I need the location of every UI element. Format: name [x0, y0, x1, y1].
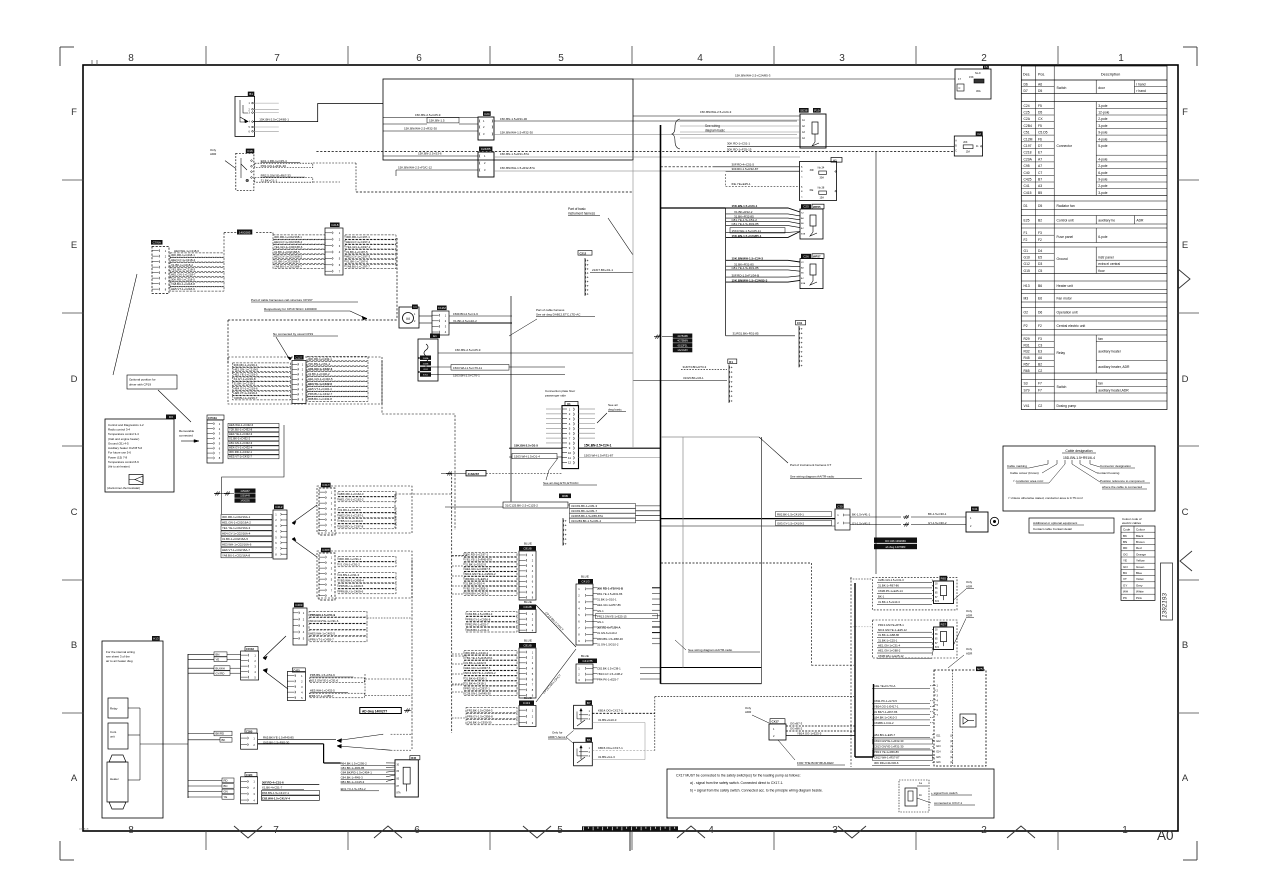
svg-text:C415: C415 — [1024, 191, 1032, 195]
svg-text:31.RK-1+C167-5: 31.RK-1+C167-5 — [339, 508, 361, 512]
svg-text:C41: C41 — [1024, 184, 1030, 188]
svg-text:BLUE: BLUE — [581, 575, 589, 579]
svg-text:YE: YE — [216, 658, 220, 662]
svg-text:YB5.GY-1+C410-6: YB5.GY-1+C410-6 — [339, 519, 363, 523]
svg-text:F2: F2 — [1024, 238, 1028, 242]
svg-text:A81.GN-1+C432-3: A81.GN-1+C432-3 — [308, 367, 333, 371]
svg-text:Part of cable harness: Part of cable harness — [536, 308, 565, 312]
svg-text:C25: C25 — [803, 205, 809, 209]
svg-text:B5: B5 — [1038, 191, 1042, 195]
svg-text:30K.RD-1+C219-1: 30K.RD-1+C219-1 — [234, 363, 258, 367]
svg-text:15K.BN-2.5+C25-9: 15K.BN-2.5+C25-9 — [455, 348, 481, 352]
svg-text:F5: F5 — [984, 65, 988, 69]
svg-text:HE1.GN-1+C162-2: HE1.GN-1+C162-2 — [339, 498, 364, 502]
svg-text:D5: D5 — [1038, 111, 1042, 115]
svg-text:6G12F2L: 6G12F2L — [678, 344, 689, 347]
svg-text:Additional or optional equipme: Additional or optional equipment — [1033, 521, 1077, 525]
svg-text:31.BK-1+C219-2: 31.BK-1+C219-2 — [234, 382, 256, 386]
svg-text:C7/16A: C7/16A — [208, 416, 217, 420]
svg-text:YA8.BU-1+C02/168-7: YA8.BU-1+C02/168-7 — [274, 265, 302, 269]
svg-text:C417/B: C417/B — [582, 659, 592, 663]
svg-text:6-pole: 6-pole — [1098, 235, 1107, 239]
svg-text:Switch: Switch — [1057, 385, 1067, 389]
svg-text:30K.RD-1+C218-5: 30K.RD-1+C218-5 — [171, 277, 195, 281]
svg-text:Optional position for: Optional position for — [129, 378, 156, 382]
svg-text:Switch: Switch — [1057, 86, 1067, 90]
svg-text:C3: C3 — [1038, 343, 1042, 347]
svg-text:31/C81.BK-1+C81-3: 31/C81.BK-1+C81-3 — [571, 504, 598, 508]
svg-text:4-pole: 4-pole — [1098, 137, 1107, 141]
svg-text:3: 3 — [839, 53, 845, 64]
svg-text:Cable designation: Cable designation — [1065, 449, 1092, 453]
svg-text:R45: R45 — [1024, 356, 1030, 360]
svg-text:B7A: B7A — [801, 232, 806, 235]
svg-text:ADR: ADR — [745, 710, 752, 714]
svg-text:X1.BK-4+C51-7: X1.BK-4+C51-7 — [262, 786, 283, 790]
svg-text:3: 3 — [832, 825, 838, 836]
svg-text:C28.GN-1.5+R45-30: C28.GN-1.5+R45-30 — [465, 692, 491, 696]
svg-text:PR6.GY-1.5+C956-8: PR6.GY-1.5+C956-8 — [467, 715, 493, 719]
svg-text:A1: A1 — [833, 158, 837, 162]
svg-text:R57: R57 — [941, 622, 947, 626]
svg-text:HE5.VT-1+C432-7: HE5.VT-1+C432-7 — [229, 455, 252, 459]
svg-text:E3: E3 — [1038, 350, 1042, 354]
svg-text:Position reference to componen: Position reference to component — [1100, 479, 1145, 483]
svg-text:B1: B1 — [249, 92, 253, 96]
svg-text:X4.GY-1+C219-8: X4.GY-1+C219-8 — [234, 377, 256, 381]
svg-text:YA8.BU-1+C197-7: YA8.BU-1+C197-7 — [346, 265, 370, 269]
svg-text:PR1.GN-1+R31-30: PR1.GN-1+R31-30 — [261, 164, 287, 168]
svg-text:AD dwg 1400277: AD dwg 1400277 — [362, 709, 387, 713]
svg-text:PR3.YE-1+C2937-1: PR3.YE-1+C2937-1 — [465, 687, 490, 691]
svg-text:1503A: 1503A — [423, 357, 429, 360]
svg-text:G83.GY-1.5+C41/9-2: G83.GY-1.5+C41/9-2 — [777, 521, 805, 525]
svg-text:OG: OG — [1123, 552, 1128, 556]
svg-text:B7A: B7A — [801, 282, 806, 285]
svg-text:M3: M3 — [1024, 296, 1029, 300]
svg-text:31.BK-2+G10-4: 31.BK-2+G10-4 — [465, 582, 485, 586]
svg-text:PR2.5.GN/YE+R67-33: PR2.5.GN/YE+R67-33 — [261, 173, 291, 177]
svg-text:C12M: C12M — [1024, 137, 1033, 141]
svg-text:Connector: Connector — [1057, 144, 1073, 148]
svg-text:D6: D6 — [1038, 310, 1042, 314]
svg-text:21/D7.BK+D1-1: 21/D7.BK+D1-1 — [592, 268, 613, 272]
svg-text:4G75B6N: 4G75B6N — [677, 340, 688, 343]
svg-text:15K.BN-1.5+R31-87A: 15K.BN-1.5+R31-87A — [500, 152, 529, 156]
svg-text:1400285: 1400285 — [239, 230, 251, 234]
svg-text:For future use 5-6: For future use 5-6 — [108, 451, 131, 455]
svg-text:PR6.VT-1+C455-7: PR6.VT-1+C455-7 — [310, 694, 334, 698]
svg-text:(1): (1) — [950, 736, 953, 738]
svg-text:HE1.GN-1+C02/16A-2: HE1.GN-1+C02/16A-2 — [222, 521, 251, 525]
svg-text:GN: GN — [224, 790, 228, 794]
svg-text:E5: E5 — [1038, 256, 1042, 260]
svg-text:F3: F3 — [1038, 337, 1042, 341]
svg-text:2-pole: 2-pole — [1098, 117, 1107, 121]
svg-text:P2: P2 — [1024, 324, 1028, 328]
svg-text:YB1.YE-1.5+R45-87A: YB1.YE-1.5+R45-87A — [465, 656, 492, 660]
svg-text:H13: H13 — [153, 637, 159, 641]
svg-text:Relay: Relay — [1057, 351, 1066, 355]
svg-text:Colour: Colour — [1136, 528, 1145, 532]
svg-text:A81.GN-1+C432-3: A81.GN-1+C432-3 — [229, 441, 253, 445]
svg-text:15A: 15A — [820, 197, 825, 200]
svg-text:PK: PK — [1123, 596, 1127, 600]
svg-text:HE1.GN-1+C432-5: HE1.GN-1+C432-5 — [308, 377, 333, 381]
svg-text:P19: P19 — [814, 109, 820, 113]
svg-text:Only: Only — [966, 609, 973, 613]
svg-text:C66.BK-1+C930-30: C66.BK-1+C930-30 — [467, 721, 492, 725]
svg-text:FOR THE BODYBUILDER: FOR THE BODYBUILDER — [797, 761, 834, 765]
svg-text:2-pole: 2-pole — [1098, 164, 1107, 168]
svg-text:R82.BK-1.5+C41/9-1: R82.BK-1.5+C41/9-1 — [777, 513, 804, 517]
svg-text:dwg basic: dwg basic — [608, 408, 622, 412]
svg-text:3-pole: 3-pole — [1098, 191, 1107, 195]
svg-text:31.BK-1+C197-5: 31.BK-1+C197-5 — [346, 250, 368, 254]
svg-text:F3: F3 — [1038, 231, 1042, 235]
svg-text:PR6.BU-1+C409-6: PR6.BU-1+C409-6 — [339, 590, 364, 594]
svg-text:BN: BN — [1123, 540, 1127, 544]
svg-text:YE1.BN-1+C218-3: YE1.BN-1+C218-3 — [171, 268, 195, 272]
svg-text:Operation unit: Operation unit — [1057, 310, 1078, 314]
svg-text:WH: WH — [1123, 590, 1128, 594]
svg-text:Green: Green — [1136, 565, 1145, 569]
svg-text:Only for: Only for — [552, 731, 563, 735]
svg-text:electric cables: electric cables — [1122, 521, 1142, 525]
svg-text:BN: BN — [216, 653, 220, 657]
svg-text:YA8.BU-1+C219-7: YA8.BU-1+C219-7 — [234, 396, 258, 400]
svg-text:B6: B6 — [587, 738, 591, 742]
svg-text:floor: floor — [1098, 269, 1105, 273]
svg-text:HE1.GN-1+C2937-5: HE1.GN-1+C2937-5 — [465, 666, 491, 670]
svg-text:C410: C410 — [322, 483, 330, 487]
svg-text:G12: G12 — [1024, 262, 1030, 266]
svg-text:passenger side: passenger side — [545, 394, 566, 398]
svg-text:F: F — [71, 107, 77, 118]
svg-text:YB14.OG-1-E417-1: YB14.OG-1-E417-1 — [874, 705, 899, 709]
svg-text:WP25: WP25 — [813, 205, 821, 209]
svg-text:B2: B2 — [1038, 218, 1042, 222]
svg-text:15K.BN-2.5+C24-1: 15K.BN-2.5+C24-1 — [584, 444, 612, 448]
svg-text:6: 6 — [416, 53, 422, 64]
svg-text:6013.GN/YE-1+C2931-2: 6013.GN/YE-1+C2931-2 — [465, 671, 496, 675]
svg-text:YA8.BU-1+C02/16A-8: YA8.BU-1+C02/16A-8 — [222, 554, 251, 558]
svg-text:¹⁾ conductor area mm²: ¹⁾ conductor area mm² — [1013, 479, 1043, 483]
svg-text:R6B: R6B — [562, 494, 568, 498]
svg-text:DO 346 1392969: DO 346 1392969 — [885, 539, 906, 543]
svg-text:30F.RD-1.5+E25-1: 30F.RD-1.5+E25-1 — [465, 577, 489, 581]
svg-text:CX: CX — [1038, 117, 1043, 121]
svg-text:V41: V41 — [972, 507, 978, 511]
svg-text:R88.BU-1+C432-8: R88.BU-1+C432-8 — [308, 397, 332, 401]
svg-text:FR2.BK-1.5+C954-3: FR2.BK-1.5+C954-3 — [467, 709, 493, 713]
svg-text:C84.BK-1+R45-85: C84.BK-1+R45-85 — [341, 766, 365, 770]
svg-text:Part of instrument harness CT: Part of instrument harness CT — [790, 463, 831, 467]
svg-text:C95: C95 — [1024, 164, 1030, 168]
svg-text:Ground: Ground — [1057, 257, 1068, 261]
svg-text:G1: G1 — [1024, 249, 1029, 253]
svg-text:connected: connected — [179, 434, 193, 438]
svg-text:BU: BU — [1123, 571, 1127, 575]
svg-text:5-pole: 5-pole — [1098, 144, 1107, 148]
svg-text:Control unit: Control unit — [1057, 218, 1074, 222]
svg-text:E14: E14 — [937, 752, 942, 754]
svg-text:OG+B7-3: OG+B7-3 — [790, 722, 803, 726]
svg-text:No.38: No.38 — [818, 187, 825, 190]
svg-text:C413: C413 — [523, 701, 531, 705]
svg-text:E6: E6 — [1038, 296, 1042, 300]
svg-text:OG+B6-2: OG+B6-2 — [790, 727, 803, 731]
svg-text:S3: S3 — [1024, 382, 1028, 386]
svg-text:31.BK-1+C02/16A-5: 31.BK-1+C02/16A-5 — [222, 537, 248, 541]
svg-text:Removable: Removable — [179, 429, 195, 433]
svg-text:C41/B: C41/B — [523, 605, 531, 609]
svg-text:HE4.GY-1+C219-6: HE4.GY-1+C219-6 — [234, 386, 258, 390]
svg-text:31/C125.BK-2.5+C125-2: 31/C125.BK-2.5+C125-2 — [505, 504, 538, 508]
svg-text:6/E: 6/E — [810, 189, 814, 192]
svg-text:C813.GN/YE-1+R32-30: C813.GN/YE-1+R32-30 — [874, 739, 904, 743]
svg-text:15D-BN-1.5+R91/6-4: 15D-BN-1.5+R91/6-4 — [1063, 456, 1095, 460]
svg-text:See wiring diagram AA/TR-radio: See wiring diagram AA/TR-radio — [790, 475, 834, 479]
svg-text:Connector designation: Connector designation — [1100, 464, 1131, 468]
svg-text:YB14.OG-1+E25-5: YB14.OG-1+E25-5 — [797, 732, 822, 736]
svg-text:Orange: Orange — [1136, 552, 1146, 556]
svg-text:See air dwg DAB12,ETC,LTD-AC: See air dwg DAB12,ETC,LTD-AC — [536, 313, 581, 317]
svg-text:G62.RD-1+C197-8: G62.RD-1+C197-8 — [339, 525, 364, 529]
svg-text:GN-1: GN-1 — [597, 609, 604, 613]
svg-text:C7/6A: C7/6A — [153, 241, 161, 245]
svg-text:D1: D1 — [1024, 204, 1028, 208]
svg-text:Violet: Violet — [1136, 577, 1144, 581]
svg-text:See air dwg ETC,ETC/AC: See air dwg ETC,ETC/AC — [543, 481, 579, 485]
svg-text:C425: C425 — [1024, 178, 1032, 182]
svg-text:F2: F2 — [977, 132, 981, 136]
svg-text:6-pole: 6-pole — [1098, 171, 1107, 175]
svg-text:R32: R32 — [1024, 350, 1030, 354]
svg-text:B: B — [1182, 640, 1188, 651]
svg-text:C2: C2 — [1038, 369, 1042, 373]
svg-text:Only: Only — [966, 647, 973, 651]
svg-text:30F.RD-1.5+F1/34-B: 30F.RD-1.5+F1/34-B — [732, 273, 760, 277]
svg-text:R29: R29 — [1024, 337, 1030, 341]
svg-text:F6: F6 — [1038, 137, 1042, 141]
svg-text:For the internal wiring: For the internal wiring — [106, 650, 135, 654]
svg-text:31.BK-1+G10-1: 31.BK-1+G10-1 — [597, 598, 617, 602]
svg-text:PR6.BU-1+C432-7: PR6.BU-1+C432-7 — [308, 392, 333, 396]
svg-text:C5: C5 — [1038, 269, 1042, 273]
svg-text:M: M — [406, 316, 409, 321]
svg-text:1: 1 — [1118, 53, 1124, 64]
svg-text:15K.BN/WH-2.5+C24-3: 15K.BN/WH-2.5+C24-3 — [700, 110, 732, 114]
svg-text:31.BK-6+E25/E-1: 31.BK-6+E25/E-1 — [465, 676, 487, 680]
svg-text:15K.BN/WH-2.5+F3/C-12: 15K.BN/WH-2.5+F3/C-12 — [398, 166, 432, 170]
svg-text:PR6.VT-1+C455-7: PR6.VT-1+C455-7 — [310, 638, 334, 642]
svg-text:Respectively for CP19 SDLC 140: Respectively for CP19 SDLC 1400200 — [264, 307, 317, 311]
svg-text:BK-1: BK-1 — [878, 595, 885, 599]
svg-text:C: C — [71, 507, 78, 518]
svg-text:HE2.GY-1+C218-4: HE2.GY-1+C218-4 — [171, 258, 195, 262]
svg-text:BLUE: BLUE — [524, 600, 532, 604]
svg-text:D6: D6 — [1024, 83, 1028, 87]
svg-text:LB4.BN-1+E25-7: LB4.BN-1+E25-7 — [874, 733, 896, 737]
svg-text:C81B.WH-1+E25-12: C81B.WH-1+E25-12 — [878, 654, 904, 658]
svg-text:R8N.BN-1.5+R68-30: R8N.BN-1.5+R68-30 — [597, 637, 623, 641]
svg-text:G15: G15 — [1024, 269, 1030, 273]
svg-text:xx11dk.dk: xx11dk.dk — [79, 829, 90, 831]
svg-text:WP27: WP27 — [813, 255, 821, 259]
svg-text:C212: C212 — [580, 251, 587, 255]
svg-text:5: 5 — [558, 53, 564, 64]
svg-text:6013.GN/YE-1+C91-6: 6013.GN/YE-1+C91-6 — [310, 679, 339, 683]
svg-text:GY: GY — [1123, 583, 1127, 587]
svg-text:R66.BN-1.5+C41/Y-1: R66.BN-1.5+C41/Y-1 — [262, 791, 290, 795]
svg-text:E12: E12 — [937, 741, 942, 743]
svg-text:C29A: C29A — [1024, 157, 1033, 161]
svg-text:1A21G3X: 1A21G3X — [677, 349, 688, 352]
svg-text:15A: 15A — [966, 151, 971, 154]
svg-text:fan: fan — [1098, 382, 1103, 386]
svg-text:30F.RD-4+C51-5: 30F.RD-4+C51-5 — [732, 163, 755, 167]
svg-text:1: 1 — [1122, 825, 1128, 836]
svg-text:BLUE: BLUE — [524, 639, 532, 643]
svg-text:See air: See air — [608, 403, 618, 407]
svg-text:F16: F16 — [247, 149, 253, 153]
svg-text:30K.RD-1+C91-1: 30K.RD-1+C91-1 — [339, 557, 362, 561]
svg-text:connected to CX17-1: connected to CX17-1 — [934, 801, 963, 805]
svg-text:HE5.VT-1+C218-9: HE5.VT-1+C218-9 — [171, 287, 195, 291]
svg-text:30F.RD-4+C51-6: 30F.RD-4+C51-6 — [262, 780, 284, 784]
svg-text:CX17: CX17 — [772, 720, 780, 724]
svg-text:C197: C197 — [1024, 144, 1032, 148]
svg-text:30K RD+C41/230-6: 30K RD+C41/230-6 — [874, 761, 899, 765]
svg-text:DX: DX — [169, 415, 173, 419]
svg-text:F5: F5 — [1038, 104, 1042, 108]
svg-text:E15: E15 — [937, 757, 942, 759]
svg-text:HE5.VT-1+C432-4: HE5.VT-1+C432-4 — [308, 387, 332, 391]
svg-text:A1E.YE+F1/73-A: A1E.YE+F1/73-A — [874, 684, 896, 688]
svg-text:S79: S79 — [1024, 388, 1030, 392]
svg-text:See wiring diagram AA/TR-radio: See wiring diagram AA/TR-radio — [688, 648, 732, 652]
svg-text:G84.BK/RD-1.5+C454-1: G84.BK/RD-1.5+C454-1 — [341, 771, 373, 775]
svg-text:Part of cable harnesses cab st: Part of cable harnesses cab structure CP… — [251, 298, 313, 302]
svg-text:9-pole: 9-pole — [1098, 178, 1107, 182]
svg-text:C82.BK-1.5+C38-1: C82.BK-1.5+C38-1 — [597, 666, 621, 670]
svg-text:R84.BK-1+C415-3: R84.BK-1+C415-3 — [341, 780, 365, 784]
svg-text:BLUE: BLUE — [524, 542, 532, 546]
svg-text:Relay: Relay — [110, 707, 118, 711]
svg-text:D7: D7 — [1024, 89, 1028, 93]
svg-text:31/C81.BK-4+C81-7: 31/C81.BK-4+C81-7 — [571, 509, 598, 513]
svg-text:GY-1.5+V41-2: GY-1.5+V41-2 — [852, 522, 871, 526]
svg-text:30F.RD-1.5+R32-87: 30F.RD-1.5+R32-87 — [732, 167, 759, 171]
svg-text:Part of basic: Part of basic — [568, 207, 586, 211]
svg-text:unit: unit — [110, 735, 115, 739]
svg-text:E: E — [1182, 240, 1188, 251]
svg-text:HE1.GN-1+C218-7: HE1.GN-1+C218-7 — [171, 272, 196, 276]
svg-text:R81.YE-1.5+R31-86: R81.YE-1.5+R31-86 — [597, 592, 623, 596]
svg-text:SE38: SE38 — [800, 109, 808, 113]
svg-text:C24: C24 — [484, 112, 490, 116]
svg-text:CX17 MUST be connected to the: CX17 MUST be connected to the safety swi… — [676, 774, 801, 778]
svg-text:YE1.GN-1+C197-2: YE1.GN-1+C197-2 — [346, 245, 371, 249]
svg-text:150F.BN-2.5+C1-6: 150F.BN-2.5+C1-6 — [453, 312, 478, 316]
svg-text:C30: C30 — [837, 504, 843, 508]
svg-text:ED1.YC-1.5+C51-2: ED1.YC-1.5+C51-2 — [341, 787, 366, 791]
svg-text:30K.RD-1+C410-1: 30K.RD-1+C410-1 — [465, 651, 489, 655]
svg-text:Radio control 3-4: Radio control 3-4 — [108, 428, 130, 432]
svg-text:1503.BN-2.5+C76-1: 1503.BN-2.5+C76-1 — [453, 374, 480, 378]
svg-text:A7: A7 — [1038, 157, 1042, 161]
svg-text:C12M: C12M — [438, 306, 447, 310]
svg-text:31.BK-1+C02/168-5: 31.BK-1+C02/168-5 — [274, 250, 300, 254]
svg-text:C84.BK-1+R45-3: C84.BK-1+R45-3 — [341, 775, 363, 779]
svg-text:31/C283.BK-1.5+C81-4: 31/C283.BK-1.5+C81-4 — [571, 519, 602, 523]
svg-text:R31: R31 — [1024, 343, 1030, 347]
svg-text:Contact housing: Contact housing — [1097, 471, 1120, 475]
svg-text:C295: C295 — [246, 729, 253, 733]
svg-text:1503B: 1503B — [423, 363, 429, 365]
svg-text:Pink: Pink — [1136, 596, 1142, 600]
svg-text:30K.RD-1+C432-1: 30K.RD-1+C432-1 — [229, 450, 253, 454]
svg-text:HE1.GN-1+C2937-5: HE1.GN-1+C2937-5 — [465, 567, 491, 571]
svg-text:8: 8 — [128, 825, 134, 836]
svg-text:a) - signal from the safety sw: a) - signal from the safety switch. Conn… — [690, 781, 783, 785]
svg-text:(Cab and engine heater): (Cab and engine heater) — [108, 437, 139, 441]
svg-text:Blue: Blue — [1136, 571, 1142, 575]
svg-text:31.BK-1.5+G10-3: 31.BK-1.5+G10-3 — [878, 600, 900, 604]
svg-text:Grey: Grey — [1136, 583, 1143, 587]
svg-text:D5: D5 — [1038, 89, 1042, 93]
svg-text:PR8.GY-1+C956-8: PR8.GY-1+C956-8 — [467, 617, 491, 621]
svg-text:GN-1: GN-1 — [597, 620, 604, 624]
svg-text:HE1.GN-1+R57-86: HE1.GN-1+R57-86 — [597, 603, 621, 607]
svg-text:87A: 87A — [935, 600, 940, 603]
svg-text:C218: C218 — [1024, 151, 1032, 155]
svg-text:C40: C40 — [1024, 171, 1030, 175]
svg-text:6: 6 — [414, 825, 420, 836]
svg-text:H13: H13 — [1024, 284, 1030, 288]
svg-text:HE5.VT-1+C219-4: HE5.VT-1+C219-4 — [234, 391, 258, 395]
svg-text:15K.BN-2.5+C24/85-1: 15K.BN-2.5+C24/85-1 — [259, 117, 289, 121]
svg-text:4-pole: 4-pole — [1098, 157, 1107, 161]
svg-text:A7: A7 — [1038, 164, 1042, 168]
svg-text:R64.BK-1.5+C295-2: R64.BK-1.5+C295-2 — [341, 761, 368, 765]
svg-text:extra el central: extra el central — [1098, 262, 1120, 266]
svg-text:see sheet 3 of the: see sheet 3 of the — [106, 655, 130, 659]
svg-text:Description: Description — [1101, 71, 1120, 76]
svg-text:Cable colour (brown): Cable colour (brown) — [1010, 471, 1039, 475]
svg-text:BN: BN — [224, 784, 228, 788]
svg-text:Y81.YE-1.5+R45-87A: Y81.YE-1.5+R45-87A — [465, 557, 492, 561]
svg-text:30F: 30F — [810, 169, 815, 172]
svg-text:A: A — [71, 773, 78, 784]
svg-text:G8N.BN-1+C413-1: G8N.BN-1+C413-1 — [465, 591, 489, 595]
svg-text:2: 2 — [981, 53, 987, 64]
svg-text:HE4.GY-1+C02/168-4: HE4.GY-1+C02/168-4 — [274, 240, 302, 244]
svg-text:31.GN-1.5/G10-2: 31.GN-1.5/G10-2 — [597, 642, 619, 646]
svg-text:C81B.PK-1+E25-14: C81B.PK-1+E25-14 — [878, 589, 903, 593]
svg-text:(1): (1) — [950, 757, 953, 759]
svg-text:1503.WH-1.5+C76-11: 1503.WH-1.5+C76-11 — [453, 366, 482, 370]
svg-text:B7: B7 — [587, 701, 591, 705]
svg-text:R1: R1 — [729, 360, 733, 364]
svg-text:BK: BK — [222, 738, 226, 742]
svg-text:2-pole: 2-pole — [1098, 184, 1107, 188]
svg-text:O2: O2 — [1024, 310, 1029, 314]
svg-text:A3: A3 — [1038, 184, 1042, 188]
svg-text:30K.RD-1+C197-1: 30K.RD-1+C197-1 — [465, 553, 489, 557]
svg-text:l hand: l hand — [1136, 83, 1145, 87]
